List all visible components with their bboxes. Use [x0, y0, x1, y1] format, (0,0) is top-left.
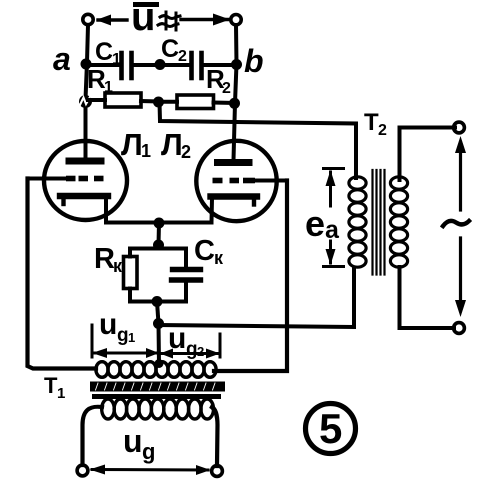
wire T2 secondary bottom to output terminal	[400, 267, 455, 328]
terminal top-left	[83, 14, 93, 24]
capacitor CK	[172, 270, 201, 281]
svg-text:u: u	[123, 423, 143, 459]
figure number badge 5	[306, 404, 356, 454]
wire node a to C1	[86, 63, 119, 67]
grid lead of Л1	[28, 177, 67, 181]
node RK/CK bottom	[152, 296, 163, 307]
svg-text:2: 2	[378, 122, 387, 139]
svg-text:Л: Л	[121, 127, 143, 162]
grid lead of Л2 to right	[255, 179, 287, 183]
wire RK/CK bottom to cathode return node	[157, 302, 159, 324]
cathode of Л2	[211, 197, 258, 205]
dimension arrow ug	[90, 465, 211, 476]
node cathode return	[153, 318, 164, 329]
resistor R2	[177, 95, 214, 109]
wire T2 secondary top to output terminal	[400, 128, 456, 181]
svg-text:5: 5	[319, 405, 342, 452]
wire right column terminal to anode of L2	[234, 25, 237, 160]
wire RK bottom	[130, 289, 157, 302]
node center (cap row)	[155, 59, 166, 70]
terminal output top	[454, 122, 465, 133]
label R2	[206, 64, 231, 97]
label Л1	[121, 127, 151, 162]
svg-text:2: 2	[181, 142, 191, 162]
wire T1 secondary right lead	[212, 407, 218, 466]
svg-text:C: C	[161, 35, 179, 63]
node center (resistor row)	[153, 97, 164, 108]
transformer T2 core	[373, 170, 385, 275]
wire C1 to center node	[133, 63, 160, 67]
arrow right toward top-right terminal	[181, 14, 230, 26]
dimension arrow ug2	[160, 349, 220, 359]
svg-text:C: C	[95, 38, 113, 66]
svg-text:2: 2	[222, 80, 231, 97]
label RK	[94, 243, 123, 276]
svg-text:T: T	[364, 109, 379, 136]
label ~ (AC output)	[443, 221, 469, 226]
svg-text:1: 1	[104, 79, 113, 96]
transformer T2 primary winding	[349, 177, 366, 267]
grid of Л1 (dashes)	[66, 176, 104, 182]
anode plate of Л2	[218, 159, 250, 166]
label C2	[161, 35, 187, 65]
wire center node to R2	[159, 100, 178, 104]
wire CK branch top	[159, 249, 187, 267]
svg-text:к: к	[113, 256, 123, 276]
label ug	[123, 423, 155, 464]
wire left column from terminal to anode of L1	[86, 25, 89, 158]
resistor R1	[105, 93, 141, 107]
capacitor C2	[192, 53, 202, 78]
wire center node down and right to T2 primary top	[160, 102, 357, 178]
wire R2 to right node	[214, 101, 235, 106]
svg-text:R: R	[94, 243, 115, 275]
label ug2	[168, 322, 204, 360]
cathode lead of Л2	[210, 199, 215, 223]
wire cathodes common	[106, 221, 212, 225]
node T1 center tap	[155, 359, 164, 368]
wire cathode node down to RK/CK top	[157, 223, 162, 245]
wire center node to C2	[160, 63, 189, 67]
wire C2 to node b	[203, 63, 236, 67]
wire R1 to center node	[141, 99, 158, 104]
node RK/CK top	[153, 240, 164, 251]
svg-text:u: u	[99, 308, 117, 341]
svg-text:a: a	[325, 216, 340, 244]
svg-text:Л: Л	[161, 127, 183, 162]
node b	[231, 59, 242, 70]
label ug1	[99, 308, 135, 346]
node a	[81, 59, 92, 70]
label C1	[95, 38, 121, 68]
label CK	[194, 235, 224, 268]
arrow output span (~)	[455, 136, 466, 317]
wire T1 secondary left lead	[83, 407, 103, 465]
svg-text:1: 1	[57, 385, 65, 402]
arrow left toward top-left terminal	[96, 15, 127, 26]
svg-text:g: g	[142, 439, 155, 464]
svg-text:b: b	[244, 43, 264, 79]
label T2	[364, 109, 387, 139]
svg-text:C: C	[194, 235, 215, 267]
terminal ug left	[77, 465, 88, 476]
wire center column down to T1 center tap	[157, 324, 162, 365]
dimension tick ea top	[324, 167, 344, 170]
terminal output bottom	[454, 323, 465, 334]
svg-text:g: g	[117, 325, 129, 346]
svg-text:1: 1	[128, 330, 135, 345]
dimension tick left (ug1)	[91, 325, 94, 357]
svg-text:g: g	[186, 339, 198, 360]
svg-text:1: 1	[112, 51, 121, 68]
transformer T2 secondary winding	[390, 177, 407, 267]
wire junction to R1	[88, 98, 105, 102]
anode plate of Л1	[69, 158, 101, 165]
svg-text:1: 1	[141, 141, 151, 161]
wire cathode return to T2 primary bottom	[159, 268, 355, 327]
label u~ (top voltage)	[131, 0, 180, 39]
transformer T1 secondary winding	[102, 399, 214, 419]
label Л2	[161, 127, 191, 162]
triode U1 (Л1) envelope	[44, 141, 127, 220]
transformer T1 grid winding	[96, 362, 216, 378]
resistor RK	[124, 257, 138, 289]
svg-text:к: к	[214, 248, 224, 268]
dimension arrow ea	[326, 170, 336, 265]
wire CK bottom	[157, 283, 186, 302]
wire grid L2 column to T1 winding right	[214, 181, 287, 372]
capacitor C1	[122, 53, 132, 78]
cathode lead of Л1	[104, 198, 108, 223]
dimension tick right (ug2)	[219, 334, 222, 357]
node R2 right	[229, 98, 240, 109]
label R1	[87, 64, 113, 96]
junction node (left, blotted)	[79, 95, 92, 108]
svg-text:2: 2	[197, 344, 204, 359]
transformer T1 core	[90, 382, 225, 400]
label T1	[44, 373, 65, 402]
wire left column (grid L1 to T1 winding left)	[28, 179, 97, 369]
svg-text:e: e	[305, 203, 325, 244]
label ea	[305, 203, 340, 244]
terminal ug right	[212, 466, 223, 477]
dimension tick ea bottom	[324, 265, 344, 268]
svg-text:T: T	[44, 373, 58, 398]
cathode of Л1	[60, 196, 108, 204]
grid of Л2 (dashes)	[213, 178, 256, 184]
svg-text:2: 2	[178, 48, 187, 65]
dimension arrow ug1	[92, 348, 159, 358]
node cathode mid	[154, 218, 165, 229]
triode U2 (Л2) envelope	[196, 141, 276, 221]
terminal top-right	[231, 15, 241, 25]
svg-text:a: a	[53, 41, 71, 77]
wire RK branch top	[130, 249, 159, 257]
